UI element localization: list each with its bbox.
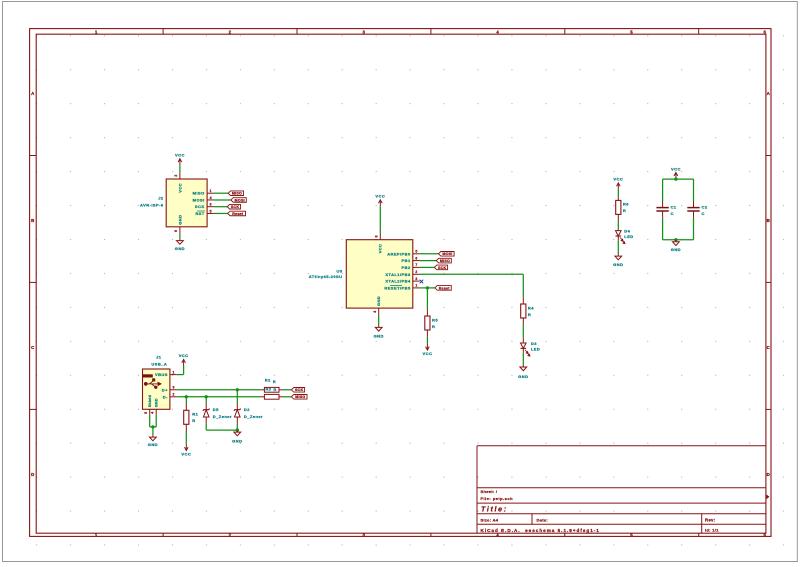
svg-text:R3: R3: [266, 388, 272, 392]
svg-text:D+: D+: [162, 387, 168, 392]
svg-text:Rev:: Rev:: [705, 517, 715, 522]
svg-text:PB2: PB2: [402, 265, 411, 270]
wire: [177, 374, 184, 376]
svg-text:MOSI: MOSI: [235, 198, 245, 202]
pin 5 AREF/PB0 (U3): [413, 253, 420, 255]
wire: [214, 192, 228, 194]
power symbol GND: [375, 325, 382, 331]
wire: [617, 240, 619, 254]
wire: [420, 260, 437, 262]
wire: [522, 353, 524, 365]
svg-text:MISO: MISO: [232, 192, 242, 196]
svg-text:6: 6: [764, 532, 767, 537]
svg-text:D: D: [767, 472, 771, 477]
pin 2 D-: [170, 396, 177, 398]
svg-text:LED: LED: [531, 347, 540, 352]
svg-text:VCC: VCC: [181, 451, 191, 456]
svg-text:J2: J2: [158, 196, 164, 201]
svg-text:D5: D5: [213, 407, 219, 412]
power symbol VCC: [379, 200, 383, 207]
power symbol VCC: [426, 343, 430, 350]
junction: [151, 425, 154, 428]
wire: [379, 206, 381, 233]
pin 8 VCC (U3 top): [379, 233, 381, 240]
svg-text:1: 1: [210, 189, 212, 193]
junction: [426, 286, 429, 289]
svg-text:C: C: [31, 345, 35, 350]
svg-text:MOSI: MOSI: [442, 252, 452, 256]
global label MOSI: [439, 252, 455, 257]
wire: [205, 397, 207, 403]
svg-text:VCC: VCC: [671, 166, 681, 171]
svg-text:D: D: [31, 472, 35, 477]
no-connect flag (PB4): [420, 280, 424, 284]
global label MOSI: [231, 198, 246, 203]
svg-text:D3: D3: [531, 341, 537, 346]
global label SCK: [227, 204, 240, 209]
svg-text:GND: GND: [148, 442, 158, 447]
wire: [663, 239, 694, 241]
svg-text:GND: GND: [232, 439, 242, 444]
IC U3 ATtiny45-20SU: [346, 240, 413, 308]
wire: [420, 273, 524, 275]
pin 6 PB1 (U3): [413, 260, 420, 262]
svg-text:C2: C2: [702, 205, 708, 210]
global label MISO: [291, 395, 307, 400]
wire: [420, 287, 428, 289]
svg-text:3: 3: [210, 203, 212, 207]
junction: [185, 395, 188, 398]
svg-text:GND: GND: [155, 398, 159, 407]
svg-text:SCK: SCK: [231, 205, 239, 209]
pin 1 VBUS: [170, 374, 177, 376]
svg-text:6: 6: [764, 29, 767, 34]
svg-text:RESET/PB5: RESET/PB5: [384, 285, 411, 290]
wire: [420, 266, 435, 268]
global label MISO: [228, 191, 243, 196]
wire: [179, 165, 181, 172]
svg-text:R: R: [192, 418, 195, 423]
svg-text:File: pelp.sch: File: pelp.sch: [481, 496, 514, 501]
zener diode D5: [203, 409, 209, 411]
svg-text:VCC: VCC: [378, 244, 383, 254]
svg-text:R2: R2: [265, 379, 271, 383]
wire: [617, 221, 619, 231]
power symbol GND: [234, 430, 241, 436]
USB icon: [143, 374, 153, 377]
power symbol GND: [150, 435, 157, 441]
svg-text:GND: GND: [518, 374, 528, 379]
svg-text:Date:: Date:: [537, 518, 549, 523]
global label MISO: [436, 258, 451, 263]
wire: [214, 212, 228, 214]
connector J1 USB_A: [143, 369, 170, 409]
power symbol VCC: [674, 173, 678, 180]
svg-text:3: 3: [362, 532, 365, 537]
svg-text:Reset: Reset: [439, 286, 451, 290]
pin 2 VCC (top): [179, 172, 181, 179]
svg-text:5: 5: [415, 250, 417, 254]
zener diode D2: [234, 409, 240, 411]
svg-text:Reset: Reset: [232, 212, 244, 216]
svg-text:VCC: VCC: [175, 153, 185, 158]
svg-text:4: 4: [496, 29, 499, 34]
junction: [674, 177, 677, 180]
svg-text:2: 2: [415, 270, 417, 274]
wire: [149, 415, 151, 427]
power symbol GND: [673, 240, 680, 246]
connector J2 AVR-ISP-6: [166, 179, 207, 227]
svg-text:C1: C1: [671, 205, 677, 210]
wire: [214, 199, 231, 201]
svg-text:2: 2: [229, 532, 232, 537]
svg-text:AREF/PB0: AREF/PB0: [387, 251, 411, 256]
svg-text:C: C: [671, 211, 674, 216]
LED D3: [521, 343, 527, 348]
svg-text:D4: D4: [624, 229, 630, 234]
svg-text:R4: R4: [528, 305, 534, 310]
resistor R1: [184, 410, 189, 424]
svg-text:5: 5: [630, 29, 633, 34]
svg-text:GND: GND: [376, 296, 381, 306]
svg-text:3: 3: [173, 386, 175, 390]
wire: [205, 424, 207, 430]
svg-text:R: R: [274, 388, 277, 392]
svg-text:ATtiny45-20SU: ATtiny45-20SU: [309, 274, 343, 279]
svg-text:MOSI: MOSI: [193, 197, 205, 202]
svg-text:1: 1: [173, 370, 175, 374]
wire: [283, 389, 291, 391]
svg-text:VCC: VCC: [179, 353, 189, 358]
wire: [426, 288, 428, 309]
svg-text:SCK: SCK: [438, 266, 446, 270]
svg-text:XTAL1/PB3: XTAL1/PB3: [385, 272, 411, 277]
junction: [236, 428, 239, 431]
resistor R2: [260, 389, 264, 391]
svg-text:GND: GND: [613, 262, 623, 267]
power symbol GND: [615, 254, 622, 260]
pin 5 Shield (bottom): [149, 409, 151, 415]
pin 4 GND (bottom): [155, 409, 157, 415]
svg-text:GND: GND: [175, 246, 185, 251]
svg-text:XTAL2/PB4: XTAL2/PB4: [385, 279, 411, 284]
resistor R3: [260, 396, 264, 398]
svg-text:C: C: [767, 345, 771, 350]
power symbol VCC: [182, 359, 186, 366]
svg-text:PB1: PB1: [402, 258, 411, 263]
wire: [150, 426, 157, 428]
svg-text:Id: 1/1: Id: 1/1: [705, 527, 719, 532]
wire: [185, 431, 187, 444]
svg-text:6: 6: [415, 256, 417, 260]
title block: [477, 446, 766, 534]
wire: [420, 253, 439, 255]
power symbol VCC: [178, 159, 182, 166]
svg-text:VBUS: VBUS: [155, 372, 168, 377]
svg-text:RST: RST: [195, 211, 204, 216]
svg-text:SCK: SCK: [195, 204, 205, 209]
svg-text:2: 2: [173, 393, 175, 397]
pin 4 GND (U3 bottom): [378, 308, 380, 315]
svg-text:B: B: [767, 218, 771, 223]
svg-text:2: 2: [174, 174, 178, 176]
wire: [426, 337, 428, 344]
svg-text:VCC: VCC: [177, 183, 182, 193]
resistor R5: [425, 316, 430, 330]
wire: [177, 396, 261, 398]
svg-text:MISO: MISO: [193, 191, 205, 196]
svg-text:5: 5: [144, 411, 148, 413]
svg-text:4: 4: [210, 196, 212, 200]
pin 3 SCK (J2): [207, 206, 214, 208]
svg-text:R6: R6: [623, 202, 629, 207]
pin 7 PB2 (U3): [413, 266, 420, 268]
svg-text:1: 1: [415, 284, 417, 288]
resistor R6: [616, 200, 621, 214]
svg-text:1: 1: [95, 532, 98, 537]
global label SCK: [291, 388, 304, 393]
svg-text:3: 3: [362, 29, 365, 34]
power symbol VCC: [185, 444, 189, 451]
svg-text:6: 6: [174, 230, 178, 232]
wire: [522, 274, 524, 297]
wire: [177, 389, 261, 391]
svg-text:VCC: VCC: [423, 351, 433, 356]
svg-text:C: C: [702, 211, 705, 216]
wire: [693, 179, 695, 201]
wire: [283, 396, 291, 398]
svg-text:4: 4: [496, 532, 499, 537]
svg-text:R: R: [623, 208, 626, 213]
svg-text:R5: R5: [432, 317, 438, 322]
svg-text:Size: A4: Size: A4: [481, 518, 499, 523]
junction: [205, 395, 208, 398]
svg-text:R: R: [273, 380, 276, 384]
wire: [236, 390, 238, 403]
junction: [674, 238, 677, 241]
svg-text:GND: GND: [177, 215, 182, 225]
svg-text:4: 4: [373, 310, 377, 312]
wire: [378, 315, 380, 326]
svg-text:R: R: [432, 324, 435, 329]
svg-text:3: 3: [415, 277, 417, 281]
wire: [183, 366, 185, 375]
svg-text:VCC: VCC: [375, 194, 385, 199]
pin 2 XTAL1/PB3 (U3): [413, 273, 420, 275]
svg-text:R1: R1: [192, 412, 198, 417]
wire: [427, 287, 435, 289]
svg-text:MISO: MISO: [295, 395, 305, 399]
global label Reset: [228, 211, 246, 216]
svg-text:D2: D2: [244, 407, 250, 412]
wire: [185, 397, 187, 404]
svg-text:J1: J1: [156, 355, 162, 360]
capacitor C1: [656, 208, 668, 211]
capacitor C2: [687, 208, 699, 211]
wire: [206, 429, 237, 431]
svg-text:MISO: MISO: [440, 259, 450, 263]
svg-text:7: 7: [415, 263, 417, 267]
wire: [662, 179, 664, 201]
power symbol VCC: [617, 183, 621, 190]
svg-text:GND: GND: [671, 247, 681, 252]
wire: [155, 415, 157, 427]
svg-text:VCC: VCC: [613, 177, 623, 182]
pin 5 RST (J2): [207, 212, 214, 214]
svg-text:KiCad E.D.A. eeschema 5.1.9+d: KiCad E.D.A. eeschema 5.1.9+dfsg1-1: [481, 528, 600, 533]
wire: [236, 424, 238, 430]
svg-text:LED: LED: [624, 234, 633, 239]
resistor R4: [521, 304, 526, 318]
wire: [214, 206, 227, 208]
svg-text:Sheet: /: Sheet: /: [481, 489, 498, 494]
power symbol GND: [177, 239, 184, 245]
svg-text:2: 2: [229, 29, 232, 34]
wire: [522, 325, 524, 338]
pin 3 D+: [170, 389, 177, 391]
svg-text:5: 5: [630, 532, 633, 537]
svg-text:Title:: Title:: [481, 506, 508, 513]
svg-text:SCK: SCK: [295, 388, 303, 392]
svg-text:A: A: [767, 91, 771, 96]
svg-text:D_Zener: D_Zener: [213, 414, 232, 419]
global label SCK: [434, 265, 447, 270]
global label Reset: [435, 286, 451, 291]
svg-text:Shield: Shield: [148, 394, 152, 407]
wire: [663, 178, 694, 180]
svg-text:R: R: [528, 312, 531, 317]
svg-text:4: 4: [151, 411, 155, 413]
svg-text:GND: GND: [374, 333, 384, 338]
svg-text:D_Zener: D_Zener: [244, 414, 263, 419]
wire: [617, 190, 619, 198]
wire: [662, 218, 664, 240]
svg-text:A: A: [31, 91, 35, 96]
pin 1 MISO (J2): [207, 192, 214, 194]
wire: [179, 234, 181, 239]
svg-text:AVR-ISP-6: AVR-ISP-6: [140, 202, 164, 207]
svg-text:1: 1: [95, 29, 98, 34]
svg-text:8: 8: [375, 235, 379, 237]
svg-text:U3: U3: [336, 268, 342, 273]
junction: [236, 388, 239, 391]
svg-text:B: B: [31, 218, 35, 223]
svg-text:D-: D-: [163, 394, 168, 399]
pin 1 RESET/PB5 (U3): [413, 287, 420, 289]
svg-text:5: 5: [210, 209, 212, 213]
LED D4: [616, 231, 622, 236]
pin 4 MOSI (J2): [207, 199, 214, 201]
svg-text:USB_A: USB_A: [151, 362, 167, 367]
pin 3 XTAL2/PB4 (U3): [413, 280, 420, 282]
wire: [693, 218, 695, 240]
wire: [152, 427, 154, 435]
pin 6 GND (bottom): [179, 227, 181, 234]
power symbol GND: [520, 365, 527, 371]
